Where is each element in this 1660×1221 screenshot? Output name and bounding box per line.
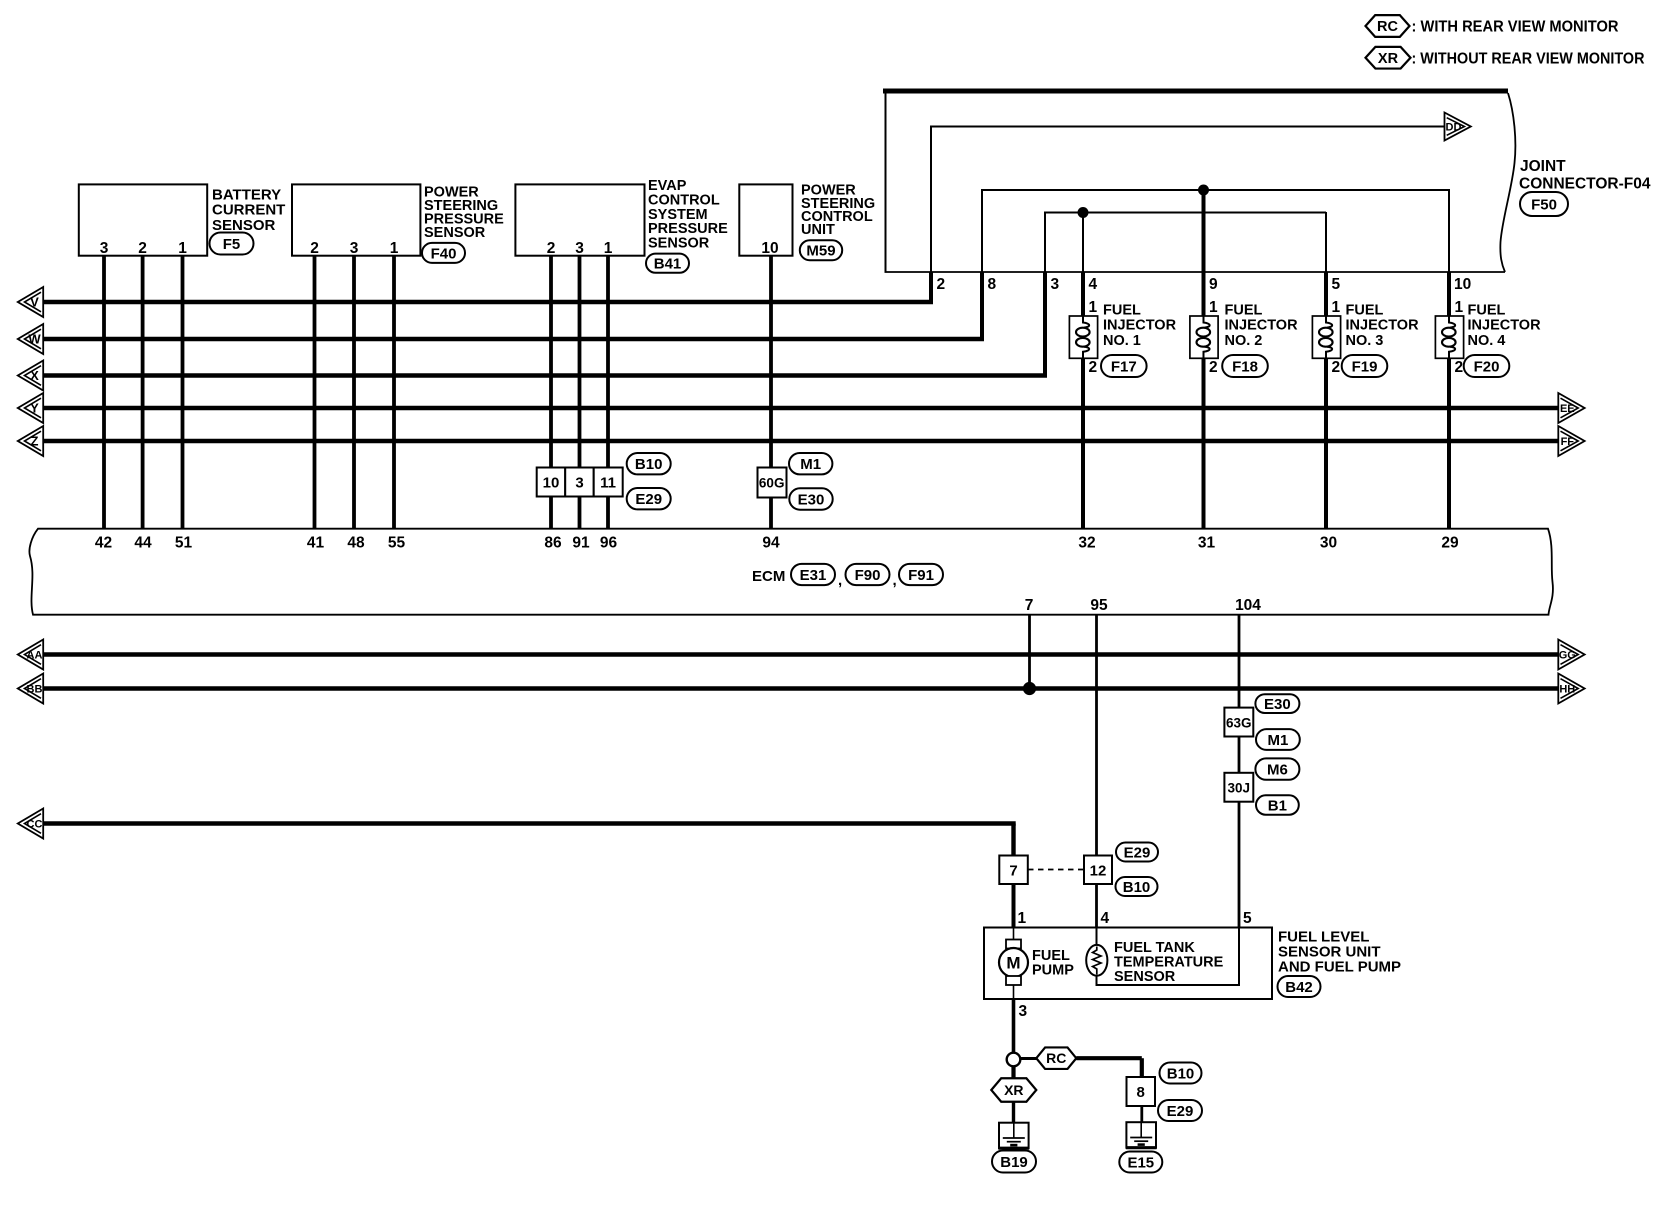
wire battery pin2 to ECM [141, 256, 145, 529]
node BB junction [1023, 682, 1036, 695]
svg-text:10: 10 [543, 475, 560, 492]
svg-text:B10: B10 [1167, 1065, 1195, 1082]
svg-text:F18: F18 [1232, 358, 1258, 375]
connector B42 [1278, 976, 1321, 997]
svg-text:4: 4 [1089, 276, 1098, 293]
wire injector 2 to ECM [1202, 358, 1206, 529]
dashed link 7-12 [1028, 869, 1084, 871]
connector F50 [1520, 192, 1568, 216]
wire AA [44, 652, 1558, 656]
fuel tank temp sensor inner box [1097, 928, 1240, 986]
wire pin8 to pin10 [981, 189, 1449, 272]
evap sensor label [648, 178, 728, 252]
connector E29 ref 2 [1116, 843, 1158, 862]
connector M6 ref 2 [1255, 758, 1299, 779]
svg-text:29: 29 [1441, 535, 1459, 552]
fuel injector no.1 coil [1069, 316, 1097, 358]
svg-text:CC: CC [27, 818, 43, 830]
svg-text:1: 1 [1209, 299, 1218, 316]
wire X [43, 373, 1047, 377]
wire ECM pin95 drop [1095, 615, 1098, 856]
svg-text:: WITHOUT REAR VIEW MONITOR: : WITHOUT REAR VIEW MONITOR [1412, 50, 1645, 67]
svg-text:: WITH REAR VIEW MONITOR: : WITH REAR VIEW MONITOR [1412, 19, 1619, 36]
svg-text:55: 55 [388, 535, 406, 552]
fuel injector no.2 coil [1190, 316, 1218, 358]
svg-text:DD: DD [1446, 121, 1462, 133]
legend symbol RC [1366, 15, 1410, 37]
svg-text:M59: M59 [806, 243, 835, 260]
svg-text:1: 1 [390, 240, 399, 257]
svg-text:NO. 3: NO. 3 [1346, 333, 1384, 349]
svg-text:1: 1 [1455, 299, 1464, 316]
svg-text:XR: XR [1004, 1082, 1023, 1098]
svg-text:FUEL: FUEL [1468, 303, 1506, 319]
svg-text:2: 2 [1089, 359, 1098, 376]
svg-text:9: 9 [1209, 276, 1218, 293]
connector M1 ref [789, 453, 832, 474]
fuel level sensor unit box [984, 928, 1272, 1000]
wire Z [43, 439, 1558, 443]
svg-text:1: 1 [178, 240, 187, 257]
svg-text:M1: M1 [800, 456, 821, 473]
wire battery pin3 to ECM [102, 256, 106, 529]
power steering pressure sensor label [424, 185, 504, 242]
svg-text:E29: E29 [635, 491, 662, 508]
svg-text:95: 95 [1090, 597, 1108, 614]
splice box labels [543, 475, 616, 492]
svg-text:F50: F50 [1531, 196, 1557, 213]
connector F17 [1101, 355, 1147, 377]
svg-text:FUEL: FUEL [1346, 303, 1384, 319]
svg-text:F90: F90 [855, 567, 881, 584]
arrow GG [1558, 640, 1584, 670]
svg-text:FUEL: FUEL [1225, 303, 1263, 319]
splice box 60G [758, 468, 787, 498]
svg-text:11: 11 [600, 475, 616, 492]
fuel injector no.3 coil [1312, 316, 1340, 358]
wire BB [44, 686, 1558, 690]
svg-text:96: 96 [600, 535, 618, 552]
svg-text:W: W [28, 332, 41, 347]
connector B19 [992, 1151, 1036, 1173]
wire ps pressure pin3 to ECM [352, 256, 356, 529]
svg-text:ECM: ECM [752, 568, 785, 585]
svg-text:E30: E30 [798, 491, 825, 508]
svg-text:44: 44 [134, 535, 152, 552]
svg-text:32: 32 [1078, 535, 1095, 552]
connector B10 ref [627, 453, 671, 474]
arrow AA [18, 640, 43, 670]
wire splice8 to ground [1140, 1106, 1143, 1123]
svg-text:48: 48 [347, 535, 365, 552]
wire RC to splice 8 [1076, 1058, 1142, 1077]
wire ps pressure pin1 to ECM [392, 256, 396, 529]
svg-text:BB: BB [27, 683, 43, 695]
svg-text:M1: M1 [1267, 732, 1288, 749]
svg-text:E29: E29 [1167, 1103, 1194, 1120]
node open junction [1007, 1053, 1021, 1067]
svg-text:2: 2 [1455, 359, 1464, 376]
wire joint pin8 stub [980, 272, 984, 341]
svg-text:1: 1 [1089, 299, 1098, 316]
fuel tank temp sensor label [1114, 940, 1224, 985]
evap sensor pins [547, 240, 613, 257]
fuel injector no.1 label [1103, 303, 1177, 349]
wire fuel pump pin3 [1012, 999, 1016, 1053]
arrow V [18, 287, 43, 317]
arrow Z [18, 426, 43, 456]
svg-text:3: 3 [1051, 276, 1060, 293]
wire evap pin3 to ECM [578, 256, 582, 529]
svg-text:5: 5 [1243, 910, 1252, 927]
connector F20 [1464, 355, 1510, 377]
svg-text:EE: EE [1560, 403, 1575, 415]
battery current sensor box [79, 184, 207, 255]
wire ps control unit pin10 to ECM [769, 256, 773, 529]
connector F90 [846, 564, 890, 585]
fuel injector no.3 label [1346, 303, 1420, 349]
svg-text:42: 42 [95, 535, 112, 552]
svg-text:B10: B10 [635, 456, 663, 473]
svg-text:104: 104 [1235, 597, 1261, 614]
connector B10 ref 2 [1116, 877, 1158, 896]
svg-text:12: 12 [1090, 863, 1107, 880]
svg-text:8: 8 [1137, 1084, 1145, 1101]
wire pin2 to DD [930, 126, 1445, 273]
connector F18 [1222, 355, 1268, 377]
svg-text:INJECTOR: INJECTOR [1468, 318, 1542, 334]
svg-text:NO. 1: NO. 1 [1103, 333, 1141, 349]
arrow Y [18, 393, 43, 423]
wire to RC option [1020, 1057, 1037, 1060]
svg-text:10: 10 [761, 240, 778, 257]
svg-text:30J: 30J [1228, 781, 1251, 796]
svg-text:E30: E30 [1264, 696, 1291, 713]
wire joint pin2 stub [929, 272, 933, 304]
svg-text:,: , [893, 572, 897, 589]
svg-text:F91: F91 [908, 567, 934, 584]
svg-text:7: 7 [1025, 597, 1034, 614]
svg-text:41: 41 [307, 535, 325, 552]
ground E15 [1126, 1122, 1157, 1148]
splice box 63G [1224, 708, 1253, 737]
svg-text:RC: RC [1377, 19, 1398, 35]
svg-text:3: 3 [350, 240, 359, 257]
svg-text:91: 91 [572, 535, 590, 552]
svg-text:XR: XR [1378, 51, 1399, 67]
connector E30 ref 2 [1255, 694, 1299, 713]
svg-text:INJECTOR: INJECTOR [1225, 318, 1299, 334]
svg-text:1: 1 [604, 240, 613, 257]
svg-text:F19: F19 [1352, 358, 1378, 375]
power steering control unit label [801, 183, 875, 239]
fuel level sensor unit label [1278, 929, 1401, 976]
connector B41 [646, 254, 689, 273]
wire injector 4 to ECM [1447, 358, 1451, 529]
wire XR to ground [1012, 1102, 1015, 1123]
wire W [43, 337, 984, 341]
connector E29 ref [627, 488, 671, 509]
wire joint pin10 stub [1447, 272, 1451, 316]
svg-text:B10: B10 [1123, 879, 1151, 896]
splice box 7 [999, 856, 1028, 885]
wire injector 1 to ECM [1081, 358, 1085, 529]
wire pin3 to pin5 [1044, 212, 1326, 272]
wire evap pin1 to ECM [606, 256, 610, 529]
wire ECM pin7 drop [1028, 615, 1031, 689]
svg-text:4: 4 [1101, 910, 1110, 927]
splice box 30J [1224, 773, 1253, 802]
svg-text:E29: E29 [1124, 844, 1151, 861]
arrow FF [1558, 426, 1584, 456]
svg-text:5: 5 [1332, 276, 1341, 293]
svg-text:F5: F5 [223, 236, 241, 253]
connector M59 [800, 240, 842, 260]
svg-text:GG: GG [1559, 649, 1576, 661]
connector F40 [422, 243, 465, 263]
svg-text:SENSOR: SENSOR [1114, 969, 1176, 985]
arrow DD [1445, 113, 1471, 141]
wire pin9 drop [1202, 190, 1206, 272]
joint connector label [1519, 158, 1651, 193]
svg-text:3: 3 [100, 240, 109, 257]
arrow BB [18, 674, 43, 704]
svg-text:X: X [30, 368, 39, 383]
arrow X [18, 361, 43, 391]
ECM box [29, 529, 1552, 615]
battery current sensor pins [100, 240, 188, 257]
wire joint pin4 stub [1081, 272, 1085, 316]
svg-text:B19: B19 [1000, 1154, 1028, 1171]
svg-text:JOINT: JOINT [1520, 158, 1566, 175]
wire evap pin2 to ECM [549, 256, 553, 529]
option symbol XR [991, 1078, 1036, 1102]
svg-text:3: 3 [1019, 1003, 1028, 1020]
svg-text:2: 2 [310, 240, 319, 257]
svg-text:F17: F17 [1111, 358, 1137, 375]
wire injector 3 to ECM [1324, 358, 1328, 529]
svg-text:E15: E15 [1127, 1154, 1154, 1171]
svg-text:10: 10 [1454, 276, 1471, 293]
splice box 11 [594, 468, 623, 497]
svg-text:M6: M6 [1267, 762, 1288, 779]
svg-text:HH: HH [1559, 683, 1575, 695]
svg-text:2: 2 [937, 276, 946, 293]
arrow EE [1558, 393, 1584, 423]
fuel injector no.4 label [1468, 303, 1542, 349]
svg-text:63G: 63G [1226, 716, 1252, 731]
wire ECM pin104 drop [1238, 615, 1241, 928]
wire joint pin5 stub [1324, 272, 1328, 316]
legend symbol XR [1366, 47, 1411, 69]
power steering control unit box [739, 184, 792, 255]
evap control system pressure sensor box [515, 184, 644, 255]
svg-text:PUMP: PUMP [1032, 963, 1074, 979]
connector B10 ref 3 [1160, 1063, 1202, 1084]
power steering pressure sensor pins [310, 240, 399, 257]
svg-text:1: 1 [1332, 299, 1341, 316]
wire CC [44, 824, 1016, 856]
svg-text:1: 1 [1018, 910, 1027, 927]
wire XR drop [1011, 1066, 1015, 1079]
svg-text:INJECTOR: INJECTOR [1346, 318, 1420, 334]
svg-text:3: 3 [575, 240, 584, 257]
svg-text:B42: B42 [1285, 979, 1313, 996]
fuel pump motor M [999, 928, 1028, 1000]
joint connector F04 box (F50) [883, 89, 1515, 272]
ground B19 [999, 1123, 1030, 1149]
svg-text:3: 3 [575, 475, 583, 492]
svg-text:FUEL: FUEL [1103, 303, 1141, 319]
connector F19 [1342, 355, 1388, 377]
wire battery pin1 to ECM [181, 256, 185, 529]
svg-text:51: 51 [175, 535, 193, 552]
connector E30 ref [789, 488, 832, 509]
arrow HH [1558, 674, 1584, 704]
battery current sensor label [212, 186, 285, 234]
svg-text:F40: F40 [431, 245, 457, 262]
connector E31 [791, 564, 835, 585]
fuel injector no.2 label [1225, 303, 1299, 349]
fuel injector no.4 coil [1435, 316, 1463, 358]
svg-text:SENSOR: SENSOR [424, 225, 486, 241]
svg-text:FF: FF [1561, 436, 1575, 448]
fuel pump label [1032, 948, 1074, 979]
svg-text:,: , [838, 572, 842, 589]
svg-text:Y: Y [30, 401, 39, 416]
svg-text:31: 31 [1198, 535, 1216, 552]
svg-text:F20: F20 [1474, 358, 1500, 375]
svg-text:M: M [1006, 954, 1020, 973]
ECM bottom pin labels [1025, 597, 1262, 614]
svg-text:B1: B1 [1268, 797, 1287, 814]
svg-text:INJECTOR: INJECTOR [1103, 318, 1177, 334]
option symbol RC [1036, 1047, 1076, 1069]
arrow W [18, 324, 43, 354]
svg-text:SENSOR: SENSOR [212, 217, 276, 234]
splice box 3 [565, 468, 594, 497]
svg-text:94: 94 [762, 535, 780, 552]
ECM top pin labels [95, 535, 1459, 552]
wire pin4 drop [1082, 213, 1084, 273]
svg-text:SENSOR: SENSOR [648, 236, 710, 252]
connector F5 [210, 233, 254, 255]
node joint pin4 [1078, 207, 1089, 218]
svg-text:V: V [30, 295, 39, 310]
wire box7 to fuel pump [1012, 884, 1016, 928]
svg-text:7: 7 [1009, 863, 1017, 880]
connector E29 ref 3 [1158, 1100, 1202, 1121]
wire joint pin3 stub [1043, 272, 1047, 378]
svg-text:86: 86 [544, 535, 562, 552]
svg-text:AA: AA [27, 649, 43, 661]
wire joint pin9 stub [1202, 272, 1206, 316]
connector B1 ref [1256, 795, 1299, 814]
svg-text:2: 2 [1332, 359, 1341, 376]
power steering pressure sensor box [292, 184, 420, 255]
svg-text:8: 8 [988, 276, 997, 293]
node joint pin9 [1198, 185, 1209, 196]
wire box12 to temp sensor [1095, 884, 1098, 928]
svg-text:2: 2 [547, 240, 556, 257]
svg-text:AND FUEL PUMP: AND FUEL PUMP [1278, 959, 1401, 976]
svg-text:NO. 4: NO. 4 [1468, 333, 1506, 349]
connector F91 [899, 564, 943, 585]
wire ps pressure pin2 to ECM [313, 256, 317, 529]
splice box 12 [1084, 856, 1112, 885]
fuel pump unit pin labels [1018, 910, 1253, 927]
connector M1 ref 2 [1256, 729, 1300, 750]
svg-text:NO. 2: NO. 2 [1225, 333, 1263, 349]
arrow CC [18, 809, 43, 839]
splice box 10 [537, 468, 566, 497]
svg-text:Z: Z [31, 434, 39, 449]
connector E15 [1119, 1152, 1162, 1173]
wire Y [43, 406, 1558, 410]
svg-text:2: 2 [1209, 359, 1218, 376]
svg-text:UNIT: UNIT [801, 222, 835, 238]
splice box 8 [1127, 1077, 1156, 1106]
svg-text:B41: B41 [654, 256, 682, 273]
svg-text:60G: 60G [759, 476, 785, 491]
svg-text:CONNECTOR-F04: CONNECTOR-F04 [1519, 176, 1651, 193]
svg-text:30: 30 [1320, 535, 1337, 552]
wire V [43, 300, 933, 304]
svg-text:E31: E31 [800, 567, 827, 584]
fuel tank temperature sensor thermistor [1086, 928, 1107, 976]
svg-text:RC: RC [1046, 1050, 1066, 1066]
svg-text:2: 2 [138, 240, 147, 257]
